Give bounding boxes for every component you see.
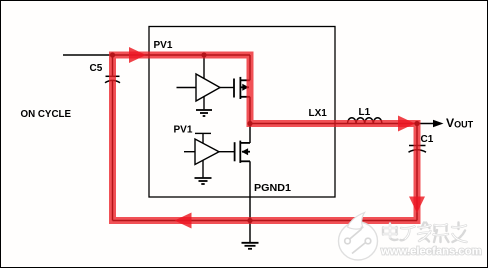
wire: high-side drain [249,55,251,80]
node: input/C5 junction [110,52,115,57]
red arrow down (right column) [409,197,425,214]
op-amp U1 (high-side gate driver buffer) [177,55,235,109]
wire: low-side drain [249,124,251,144]
logo circle [339,222,378,260]
watermark chinese glyph strokes [383,223,467,243]
svg-text:C5: C5 [90,63,103,74]
output arrow to VOUT [433,120,444,127]
red arrow right (LX1) [398,116,415,132]
inductor L1 [348,118,382,124]
svg-text:PGND1: PGND1 [254,183,291,194]
wire: low-side source to ground [249,161,251,242]
svg-text:L1: L1 [359,107,371,118]
svg-text:C1: C1 [421,134,434,145]
node: LX1 junction [247,121,252,126]
IC box outline [149,27,335,198]
wire: right output column [416,124,418,221]
watermark logo (elecfans) [339,213,482,261]
logo pad right [365,238,371,244]
wire: input PV1 rail [63,54,250,56]
wire: bottom return [113,220,418,222]
ground (driver U2) [195,178,212,184]
wire: LX1 to output node [250,123,417,125]
red arrow right (top) [129,47,146,63]
ground (main PGND) [242,243,259,249]
ground (driver U1) [196,110,212,116]
wire: C5 branch left column [112,55,114,221]
transistor Q2 (low-side MOSFET) [235,141,250,163]
logo leaf [348,213,365,230]
svg-text:LX1: LX1 [309,108,328,119]
node: driver supply tap [201,52,206,57]
svg-text:PV1: PV1 [174,125,193,136]
capacitor C1 [409,146,427,153]
node: PGND/bottom junction [247,218,252,223]
logo trace lines [348,227,368,254]
svg-text:PV1: PV1 [154,40,173,51]
wire: VOUT lead [417,123,434,125]
logo pad left [345,238,351,244]
node: VOUT junction [414,121,419,126]
wire: high-side source [249,97,251,124]
op-amp U2 (low-side gate driver buffer) [184,133,235,177]
transistor Q1 (high-side MOSFET) [234,77,250,99]
red arrow left (bottom) [175,213,192,229]
svg-text:www.elecfans.com: www.elecfans.com [380,246,482,258]
capacitor C5 [105,76,120,83]
svg-text:ON CYCLE: ON CYCLE [21,108,72,120]
wire: red current loop highlight [113,55,418,221]
